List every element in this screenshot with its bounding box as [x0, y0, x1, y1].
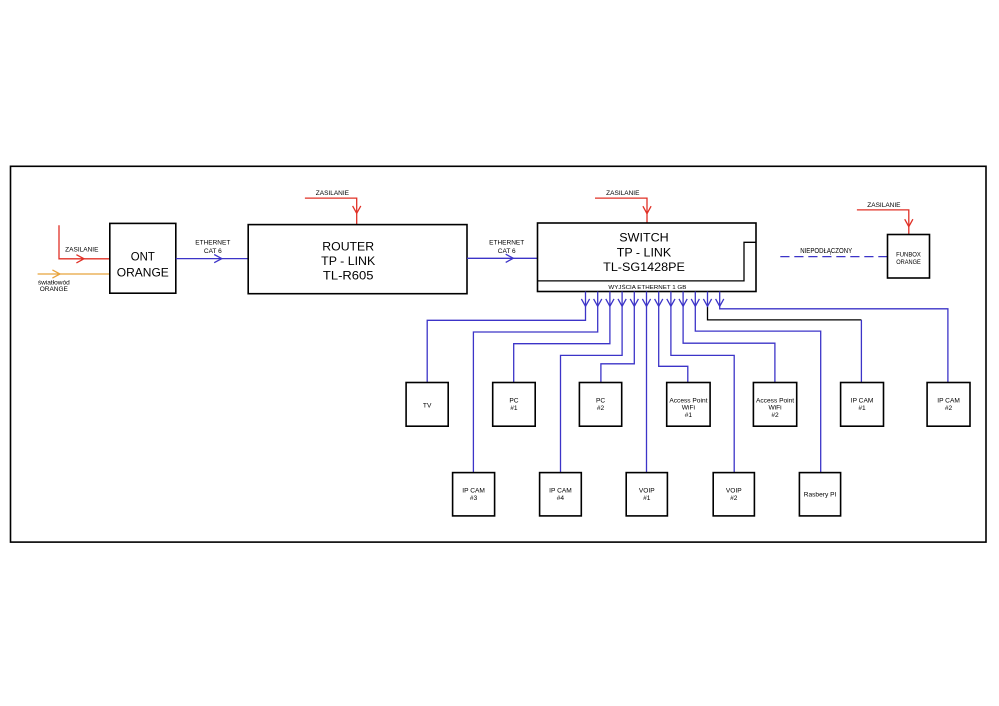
- svg-text:#1: #1: [643, 495, 651, 502]
- wire ZASILANIE to ONT: [59, 225, 110, 259]
- box Rasbery PI: [799, 473, 840, 516]
- svg-text:WiFi: WiFi: [682, 405, 696, 412]
- svg-text:ZASILANIE: ZASILANIE: [606, 190, 640, 197]
- svg-text:ZASILANIE: ZASILANIE: [65, 246, 99, 253]
- svg-text:#2: #2: [597, 405, 605, 412]
- svg-text:CAT 6: CAT 6: [498, 248, 516, 255]
- arrowhead ZASILANIE FUNBOX: [905, 219, 913, 226]
- svg-text:#2: #2: [730, 495, 738, 502]
- svg-text:#1: #1: [858, 405, 866, 412]
- box ROUTER: [248, 225, 467, 294]
- wire swiatlowod ORANGE: [38, 273, 110, 275]
- box TV: [406, 383, 448, 427]
- switch inner divider: [538, 242, 757, 281]
- arrowhead wire switch port 11 to IP CAM 1: [703, 299, 711, 306]
- svg-text:PC: PC: [596, 398, 605, 405]
- wire switch port 11 to IP CAM 1 (vertical from switch): [707, 292, 709, 307]
- svg-text:ETHERNET: ETHERNET: [195, 240, 230, 247]
- svg-text:IP CAM: IP CAM: [462, 488, 485, 495]
- wire ETHERNET ONT-ROUTER: [176, 258, 248, 260]
- arrowhead ZASILANIE ONT: [76, 255, 84, 263]
- svg-text:TV: TV: [423, 402, 432, 409]
- wire switch port 6 to VOIP 1: [646, 292, 648, 473]
- svg-text:Access Point: Access Point: [756, 397, 794, 404]
- wire ZASILANIE to FUNBOX: [857, 210, 909, 235]
- svg-text:WiFi: WiFi: [768, 405, 782, 412]
- svg-text:CAT 6: CAT 6: [204, 248, 222, 255]
- svg-text:Access Point: Access Point: [669, 397, 707, 404]
- svg-text:SWITCH: SWITCH: [619, 230, 668, 244]
- arrowhead wire switch port 4 to IP CAM 4: [618, 299, 626, 306]
- svg-text:VOIP: VOIP: [726, 488, 742, 495]
- svg-text:TP - LINK: TP - LINK: [321, 254, 376, 268]
- svg-text:IP CAM: IP CAM: [549, 488, 572, 495]
- svg-text:ROUTER: ROUTER: [322, 239, 374, 253]
- arrowhead wire switch port 8 to VOIP 2: [667, 299, 675, 306]
- arrowhead wire switch port 6 to VOIP 1: [642, 299, 650, 306]
- arrowhead ZASILANIE SWITCH: [643, 206, 651, 213]
- arrowhead ETHERNET 1: [214, 255, 222, 263]
- svg-text:WYJŚCIA ETHERNET 1 GB: WYJŚCIA ETHERNET 1 GB: [608, 283, 686, 291]
- svg-text:TL-SG1428PE: TL-SG1428PE: [603, 260, 685, 274]
- box IP CAM 4: [540, 473, 582, 516]
- arrowhead wire switch port 1 to TV: [581, 299, 589, 306]
- svg-text:ORANGE: ORANGE: [117, 265, 169, 279]
- svg-text:IP CAM: IP CAM: [937, 398, 960, 405]
- arrowhead wire switch port 3 to PC 1: [606, 299, 614, 306]
- wire switch port 10 to Rasbery PI: [695, 292, 820, 473]
- box PC 1: [493, 383, 536, 427]
- wire switch port 4 to IP CAM 4: [561, 292, 623, 473]
- svg-text:ETHERNET: ETHERNET: [489, 240, 524, 247]
- arrowhead wire switch port 12 to IP CAM 2: [716, 299, 724, 306]
- svg-text:NIEPODŁĄCZONY: NIEPODŁĄCZONY: [800, 248, 852, 255]
- arrowhead ZASILANIE ROUTER: [353, 206, 361, 213]
- svg-text:#1: #1: [510, 405, 518, 412]
- svg-text:Rasbery PI: Rasbery PI: [804, 492, 837, 499]
- wire ZASILANIE to ROUTER: [305, 198, 357, 225]
- box PC 2: [579, 383, 621, 427]
- svg-text:ORANGE: ORANGE: [896, 259, 921, 266]
- wire ZASILANIE to SWITCH: [595, 198, 647, 223]
- box FUNBOX ORANGE: [888, 235, 930, 279]
- arrowhead wire switch port 7 to AP WiFi 1: [655, 299, 663, 306]
- svg-text:#2: #2: [945, 405, 953, 412]
- svg-text:#1: #1: [685, 412, 693, 419]
- arrowhead wire switch port 5 to PC 2: [630, 299, 638, 306]
- svg-text:#4: #4: [557, 495, 565, 502]
- wire switch port 1 to TV: [427, 292, 585, 383]
- box IP CAM 3: [453, 473, 495, 516]
- wire switch port 8 to VOIP 2: [671, 292, 734, 473]
- arrowhead wire switch port 9 to AP WiFi 2: [679, 299, 687, 306]
- svg-text:TL-R605: TL-R605: [323, 269, 374, 283]
- svg-text:ZASILANIE: ZASILANIE: [316, 190, 350, 197]
- arrowhead wire switch port 2 to IP CAM 3: [594, 299, 602, 306]
- svg-text:#3: #3: [470, 495, 478, 502]
- wire vertical into IP CAM 1: [860, 320, 862, 383]
- svg-text:ONT: ONT: [131, 249, 155, 263]
- svg-text:FUNBOX: FUNBOX: [896, 251, 921, 258]
- wire NIEPODLACZONY dashed: [780, 256, 887, 258]
- svg-text:PC: PC: [509, 398, 518, 405]
- wire black segment to IP CAM 1: [708, 307, 862, 320]
- box Access Point WiFi 1: [667, 383, 710, 427]
- svg-text:VOIP: VOIP: [639, 488, 655, 495]
- box SWITCH: [538, 223, 757, 292]
- box Access Point WiFi 2: [753, 383, 796, 427]
- box ONT ORANGE: [110, 223, 176, 293]
- box IP CAM 1: [841, 383, 884, 427]
- wire switch port 9 to AP WiFi 2: [683, 292, 775, 383]
- box VOIP 1: [626, 473, 667, 516]
- wire switch port 7 to AP WiFi 1: [659, 292, 688, 383]
- svg-text:TP - LINK: TP - LINK: [617, 245, 672, 259]
- svg-text:#2: #2: [771, 412, 779, 419]
- box IP CAM 2: [927, 383, 970, 427]
- wire switch port 2 to IP CAM 3: [473, 292, 597, 473]
- arrowhead swiatlowod: [52, 270, 60, 278]
- wire switch port 12 to IP CAM 2: [720, 292, 948, 383]
- box VOIP 2: [713, 473, 754, 516]
- svg-text:ORANGE: ORANGE: [40, 286, 69, 293]
- wire ETHERNET ROUTER-SWITCH: [467, 257, 538, 259]
- wire switch port 3 to PC 1: [514, 292, 610, 383]
- arrowhead wire switch port 10 to Rasbery PI: [691, 299, 699, 306]
- svg-text:ZASILANIE: ZASILANIE: [867, 202, 901, 209]
- arrowhead ETHERNET 2: [506, 254, 514, 262]
- wire switch port 5 to PC 2: [601, 292, 634, 383]
- svg-text:IP CAM: IP CAM: [851, 398, 874, 405]
